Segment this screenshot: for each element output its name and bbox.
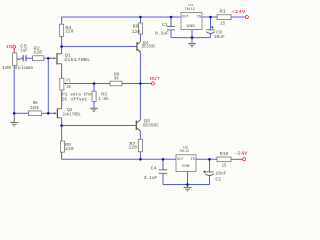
transistor Q3 [136,118,159,131]
ground at U1 [188,38,196,47]
svg-text:OUT: OUT [150,76,160,82]
svg-text:C4: C4 [151,165,157,171]
wire R1 to +24V terminal [231,16,245,18]
svg-text:220k: 220k [30,106,39,111]
resistor R4 [60,24,74,36]
svg-text:3k: 3k [114,76,120,82]
junction C2 top [208,158,211,161]
svg-text:BC550C: BC550C [142,43,156,49]
wire R8 row [14,112,53,114]
svg-text:1uF: 1uF [20,47,28,53]
junction OUT node [139,82,142,85]
svg-text:P1: P1 [66,78,71,83]
svg-text:DC offset: DC offset [62,97,88,103]
junction C9 top [209,16,212,19]
jfet Q2 [53,107,81,118]
svg-text:0.1uF: 0.1uF [155,30,169,36]
svg-text:220: 220 [33,50,42,56]
junction U2 ground [186,183,189,186]
svg-text:OUT: OUT [182,16,190,20]
-24V terminal [234,150,248,160]
svg-text:10uF: 10uF [214,34,225,40]
svg-text:220: 220 [65,29,73,35]
capacitor C5 [20,44,28,62]
svg-text:COM: COM [182,165,190,169]
svg-text:120: 120 [128,145,137,151]
junction R6 top [139,16,142,19]
svg-text:-24V: -24V [234,150,248,156]
capacitor C4 [144,165,167,181]
svg-text:R10: R10 [220,151,229,157]
svg-text:P1 sets the: P1 sets the [62,92,92,98]
svg-text:1.5k: 1.5k [98,96,109,102]
wire R6 leads [140,17,142,41]
svg-text:R1: R1 [219,9,226,15]
wire gate bus vertical [47,58,49,113]
svg-text:15: 15 [222,163,227,169]
capacitor C9 [206,26,225,40]
IC U2 79L12 [176,146,196,171]
svg-text:C1: C1 [162,22,168,28]
svg-text:78L12: 78L12 [185,8,196,12]
svg-text:IN: IN [6,44,12,50]
wire Q3 base row [62,125,136,127]
svg-text:BC550C: BC550C [143,122,159,128]
resistor R9 [110,72,122,86]
wire P1 wiper row [67,83,110,85]
resistor R8 [29,102,42,116]
ground at U2 [184,185,192,191]
wire C1 leads [170,17,172,38]
svg-text:10K Volume: 10K Volume [2,65,33,71]
junction Q2 source [60,124,63,127]
junction R7 bottom [139,158,142,161]
jfet Q1 [53,53,91,65]
junction Q1 drain node [60,45,63,48]
resistor R2 [33,46,44,61]
svg-text:20: 20 [66,85,71,90]
+24V terminal [231,9,248,18]
wire Q4 emitter to OUT to Q3 collector [139,52,141,119]
svg-text:10uF: 10uF [215,171,226,177]
wire Q1 drain [61,47,63,54]
svg-text:15: 15 [220,20,225,26]
wire Q3 emitter to R7 [139,131,141,139]
wire OUT stub [140,83,151,85]
wire R4 leads [61,17,63,47]
IC U1 78L12 [181,4,202,29]
svg-text:+24V: +24V [231,9,245,15]
junction U1 ground [191,36,194,39]
svg-text:OUT: OUT [177,158,185,162]
wire top +12V rail [62,16,181,18]
OUT terminal [150,76,160,85]
wire R3 bottom lead [93,102,95,108]
potentiometer 10K Volume [2,53,33,71]
junction Q1 gate node [47,57,50,60]
junction R3 top [93,82,96,85]
wire top ground net [171,37,211,39]
wire Q2 source [61,118,63,126]
ground under volume pot [10,113,18,126]
wire U1 GND pin [191,30,193,38]
wire P1 to Q2 drain [61,90,63,109]
svg-text:R6: R6 [133,24,139,30]
svg-text:0.1uF: 0.1uF [144,175,157,181]
wire bottom -12V rail [62,158,176,160]
note P1 sets the DC offset [62,92,92,103]
svg-text:120: 120 [132,29,141,35]
junction pot bottom [13,112,16,115]
IN terminal [6,44,15,53]
wire R10 to -24V terminal [231,158,243,160]
svg-text:220: 220 [65,146,74,152]
svg-text:IN: IN [197,16,202,20]
wire R7 bottom [139,152,141,160]
wire C9 leads [210,17,212,38]
junction R8 right [47,112,50,115]
svg-text:R8: R8 [33,102,38,106]
resistor R1 [217,9,231,27]
resistor R5 [61,141,74,152]
resistor R6 [132,23,143,35]
svg-text:2sk170BL: 2sk170BL [64,57,91,63]
wire C2 leads [209,159,211,184]
trimmer P1 [60,78,72,90]
resistor R3 [92,91,109,102]
wire C4 leads [162,159,164,184]
transistor Q4 [136,40,155,53]
capacitor C1 [155,22,175,37]
wire R9 to OUT node [122,83,140,85]
resistor R7 [128,139,142,152]
wire R3 top lead [93,84,95,92]
resistor R10 [217,151,231,169]
svg-text:IN: IN [190,158,195,162]
svg-text:2sk170BL: 2sk170BL [63,112,81,118]
wire U2 IN to R10 [196,158,217,160]
wire volume pot bottom [13,66,15,114]
wire R5 leads [61,126,63,160]
svg-text:79L12: 79L12 [179,150,190,154]
svg-text:GND: GND [186,25,196,29]
junction C1 top [170,16,173,19]
wire input signal row [20,57,53,59]
wire Q4 base [62,46,137,48]
svg-text:C2: C2 [215,176,221,182]
wire U2 COM pin [187,172,189,185]
wire Q1 source to P1 [61,64,63,79]
capacitor C2 [203,170,226,182]
junction C4 top [162,158,165,161]
wire U1 IN to R1 [202,16,217,18]
wire bottom ground net [163,184,210,186]
ground under R3 [90,108,98,112]
